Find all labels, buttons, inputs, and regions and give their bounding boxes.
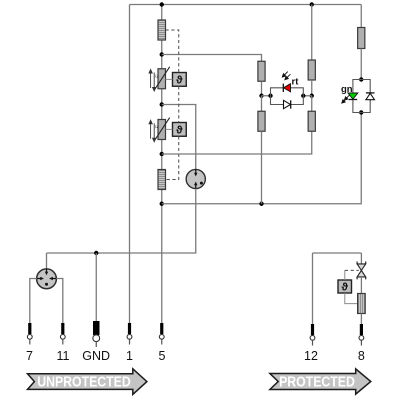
fuse F1 (hatched) — [158, 20, 166, 40]
wire varistor RV2 to T2 — [166, 128, 173, 130]
svg-text:ϑ: ϑ — [176, 125, 183, 137]
node red-left chain bottom — [259, 202, 263, 206]
node red-left mid — [259, 94, 263, 98]
wire LED box right to node — [303, 95, 311, 97]
gas discharge tube F2 — [186, 169, 205, 188]
terminal 5 — [159, 323, 164, 345]
varistor RV2 u-arrows — [149, 120, 158, 142]
LED gn (green, pointing down) — [348, 93, 358, 100]
svg-text:1: 1 — [126, 349, 133, 363]
svg-text:ϑ: ϑ — [176, 75, 183, 87]
node green box top — [359, 77, 363, 81]
wire bus to red-left chain y=54.5 — [162, 55, 262, 62]
node red-right mid — [310, 94, 314, 98]
wire bus to GDT F2 top — [162, 105, 196, 170]
svg-text:12: 12 — [304, 349, 318, 363]
wire GDT F3 top lead — [46, 253, 48, 269]
wire red-right chain lower — [311, 96, 313, 112]
gas discharge tube F3 (3-electrode) — [37, 269, 57, 289]
svg-text:rt: rt — [292, 76, 300, 87]
svg-text:PROTECTED: PROTECTED — [279, 373, 355, 389]
wire main bus / terminal 5 vertical x=161.75 — [161, 5, 163, 324]
node GND junction — [94, 251, 98, 255]
wire GDT F3 left electrode to terminal 7 — [30, 279, 37, 324]
terminal 7 — [27, 323, 32, 345]
green box frame — [353, 80, 370, 113]
varistor RV2 — [154, 118, 170, 142]
node bus y=203.75 — [160, 202, 164, 206]
thermal disconnect T3 — [338, 280, 352, 294]
dashed link T2 to PTC RT2 — [166, 136, 179, 179]
svg-text:GND: GND — [82, 349, 110, 363]
wire PTC RT3 to terminal 8 — [360, 314, 362, 325]
wire R2 bottom to y=203.75 — [261, 131, 263, 204]
svg-text:7: 7 — [26, 349, 33, 363]
wire GDT F3 right electrode to terminal 11 — [56, 279, 63, 324]
resistor R5 — [358, 28, 365, 49]
varistor RV1 — [154, 67, 170, 91]
LED gn emission arrows — [342, 95, 350, 103]
wire TVS top lead — [360, 253, 362, 264]
terminal GND — [93, 321, 100, 347]
terminal 1 — [127, 323, 132, 345]
wire terminal 12 vertical — [312, 253, 314, 324]
node bus y=154 — [160, 152, 164, 156]
wire bus to green chain y=203.75 — [162, 113, 362, 204]
PTC thermistor RT2 (hatched) — [158, 170, 166, 190]
TVS suppressor diode — [357, 261, 366, 279]
resistor R2 — [258, 111, 265, 131]
terminal 8 — [359, 324, 364, 346]
svg-text:5: 5 — [159, 349, 166, 363]
thermal disconnect T2 — [173, 123, 187, 137]
wire GDT F2 bottom to GND rail — [47, 189, 196, 253]
LED box (red) frame — [271, 88, 304, 105]
wire R3 to node — [311, 80, 313, 96]
node green box bottom — [359, 110, 363, 114]
resistor R4 — [308, 111, 315, 131]
banner UNPROTECTED — [28, 369, 147, 395]
wire red-left node to LED box — [262, 95, 271, 97]
link T3 to TVS — [344, 270, 346, 280]
svg-text:gn: gn — [341, 84, 353, 95]
dashed link T1 to T2 — [178, 86, 180, 122]
node bus y=104.5 — [160, 102, 164, 106]
svg-text:11: 11 — [57, 349, 70, 363]
wire red-right chain top segment — [311, 5, 313, 61]
PTC thermistor RT3 (hatched) — [358, 294, 366, 314]
svg-text:u: u — [155, 124, 158, 130]
link T3 to PTC RT3 — [345, 293, 358, 304]
thermal disconnect T1 — [173, 73, 187, 87]
node LED box right — [301, 94, 305, 98]
resistor R1 — [258, 61, 265, 81]
dashed link F1 to T1 — [166, 30, 179, 73]
diode D1 (anode left) — [284, 100, 291, 108]
node bus top — [160, 2, 164, 6]
svg-text:u: u — [155, 73, 158, 79]
resistor R3 — [308, 60, 315, 80]
terminal 12 — [310, 324, 315, 346]
varistor RV1 u-arrows — [149, 70, 158, 92]
LED rt (red, cathode left) — [283, 84, 290, 92]
wire GND terminal vertical — [95, 253, 97, 321]
wire varistor RV1 to T1 — [166, 78, 173, 80]
LED rt emission arrows — [282, 72, 290, 80]
wire left border / terminal 1 vertical x=129.5 — [129, 5, 131, 324]
svg-text:UNPROTECTED: UNPROTECTED — [37, 373, 131, 389]
banner PROTECTED — [270, 369, 371, 394]
wire protected rail y=253 — [313, 252, 362, 254]
wire top bus L1-to-green-chain y=4.5 — [130, 4, 362, 6]
node bus y=54.5 — [160, 52, 164, 56]
wire R1 to node — [261, 81, 263, 96]
node red-right chain top — [310, 2, 314, 6]
svg-text:8: 8 — [358, 349, 365, 363]
wire TVS to PTC RT3 — [360, 277, 362, 294]
wire R5 to green box — [360, 49, 362, 80]
wire green chain top segment — [360, 5, 362, 28]
svg-text:ϑ: ϑ — [341, 282, 348, 294]
node LED box left — [268, 94, 272, 98]
terminal 11 — [60, 323, 65, 345]
wire red-left chain lower — [261, 96, 263, 112]
wire bus to red-right chain y=154 — [162, 131, 312, 154]
diode D2 (pointing up) — [366, 93, 375, 100]
